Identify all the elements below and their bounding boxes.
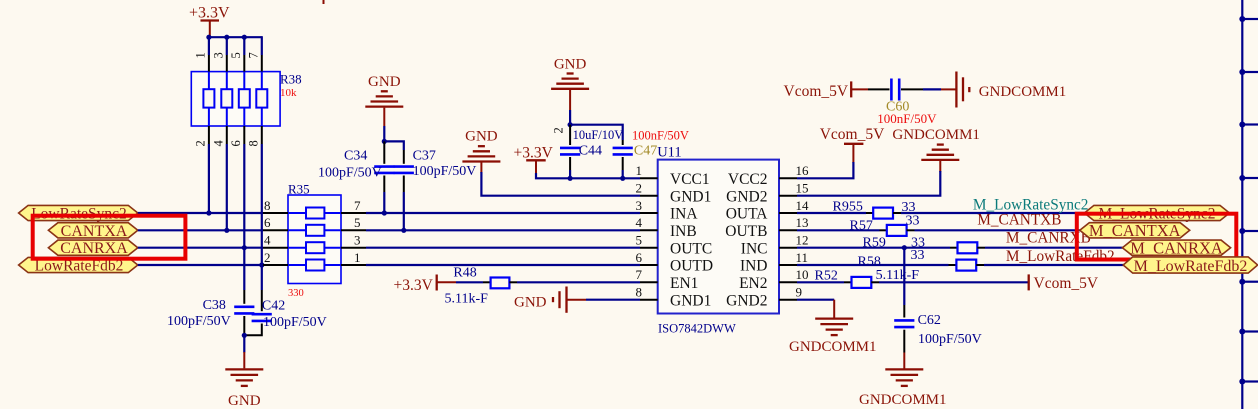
wire R59 to port M_CANRXA <box>985 247 1125 249</box>
R38 element 3 <box>239 89 250 107</box>
R35 element row 4 <box>288 264 306 266</box>
U11 pin 14 <box>779 212 797 214</box>
wire R57 to port M_CANTXA <box>915 229 1086 231</box>
svg-text:R48: R48 <box>453 266 476 281</box>
svg-text:15: 15 <box>796 181 809 196</box>
wire pin2 to LowRateSync2 net <box>208 144 210 213</box>
svg-text:100pF/50V: 100pF/50V <box>413 164 477 179</box>
U11 pin 1 <box>640 177 658 179</box>
svg-text:GNDCOMM1: GNDCOMM1 <box>979 84 1067 100</box>
svg-text:GND: GND <box>465 129 498 145</box>
capacitor C47 100nF/50V <box>613 129 689 179</box>
svg-text:C37: C37 <box>413 149 436 164</box>
node rail-pin3 <box>224 35 229 40</box>
svg-text:C34: C34 <box>344 149 367 164</box>
node rail-pin5 <box>242 35 247 40</box>
R35 element row 3 <box>288 247 306 249</box>
wire GND to pin8 <box>586 299 640 301</box>
svg-text:8: 8 <box>246 140 260 146</box>
svg-text:16: 16 <box>796 163 810 178</box>
power Vcom_5V (C60 left) <box>784 81 869 100</box>
svg-text:EN1: EN1 <box>670 275 698 292</box>
svg-text:10k: 10k <box>280 87 297 99</box>
resistor R48 5.11k-F <box>445 266 518 307</box>
ground GND (above C44) <box>551 56 589 110</box>
ground GNDCOMM1 (below C62) <box>859 353 947 409</box>
bus stub 4 <box>1242 177 1258 179</box>
resistor R59 33 <box>863 235 986 253</box>
wire R38 pin3 drop <box>226 37 228 55</box>
svg-text:14: 14 <box>796 198 810 213</box>
wire C62 branch <box>903 248 905 305</box>
svg-text:10uF/10V: 10uF/10V <box>573 128 624 142</box>
wire LowRateFdb2 to R35 pin2 <box>138 264 263 266</box>
wire junction to GND <box>243 335 245 352</box>
svg-text:GND1: GND1 <box>670 292 711 309</box>
svg-text:CANTXA: CANTXA <box>61 223 128 240</box>
svg-text:INC: INC <box>741 240 768 257</box>
capacitor C60 100nF/50V <box>868 79 937 127</box>
R38 element 1 <box>203 89 214 107</box>
svg-text:C38: C38 <box>203 298 226 313</box>
wire CANTXA to R35 pin6 <box>138 229 263 231</box>
wire LowRateSync2 to R35 pin8 <box>138 212 263 214</box>
red highlight rectangle right <box>1077 214 1237 260</box>
U11 pin 3 <box>640 212 658 214</box>
wire R35 pin3 to U11 OUTC <box>366 247 640 249</box>
svg-text:GND: GND <box>554 56 587 72</box>
power +3.3V (EN1) <box>394 275 457 295</box>
wire GND to C44/C47 tops <box>569 110 571 125</box>
port LowRateFdb2 <box>19 257 138 274</box>
U11 pin 7 <box>640 281 658 283</box>
svg-text:100nF/50V: 100nF/50V <box>632 129 689 143</box>
port M_LowRateSync2 <box>1084 205 1229 222</box>
svg-text:1: 1 <box>354 250 361 265</box>
svg-text:2: 2 <box>636 181 643 196</box>
U11 pin 15 <box>779 195 797 197</box>
ground GND (bar style, GND1 pin8) <box>514 287 586 313</box>
ground GNDCOMM1 (bar style, C60 right) <box>941 72 1066 108</box>
R35 pin 3 <box>341 247 366 249</box>
R35 element row 1 <box>288 212 306 214</box>
U11 pin 2 <box>640 195 658 197</box>
svg-text:6: 6 <box>636 250 643 265</box>
wire GNDCOMM1 to pin15 <box>797 171 940 196</box>
svg-text:OUTD: OUTD <box>670 258 713 275</box>
capacitor C37 100pF/50V <box>394 149 477 231</box>
svg-text:2: 2 <box>552 127 566 133</box>
U11 pin 11 <box>779 264 797 266</box>
wire pin10 to R52 <box>797 281 844 283</box>
svg-text:GND: GND <box>514 295 547 311</box>
capacitor C62 100pF/50V <box>894 305 982 353</box>
R35 pin 4 <box>263 247 288 249</box>
ground GND (to U11 GND1 pin2) <box>462 129 500 173</box>
wire R38 pin5 drop <box>243 37 245 55</box>
svg-text:M_CANTXB: M_CANTXB <box>977 212 1061 229</box>
svg-text:OUTA: OUTA <box>726 206 769 223</box>
capacitor C44 10uF/10V <box>560 125 623 179</box>
port CANTXA <box>48 223 137 240</box>
R35 pin 5 <box>341 229 366 231</box>
svg-text:1: 1 <box>636 163 643 178</box>
cut-off power stub top <box>323 0 325 4</box>
svg-text:100pF/50V: 100pF/50V <box>918 332 982 347</box>
wire right bus rail <box>1241 0 1243 409</box>
R38 pin 8 <box>261 108 263 126</box>
svg-text:U11: U11 <box>657 145 681 161</box>
bus stub 3 <box>1242 123 1258 125</box>
wire R52 to Vcom_5V <box>879 281 1029 283</box>
capacitor C34 100pF/50V <box>318 141 394 213</box>
svg-text:4: 4 <box>211 140 225 147</box>
U11 pin 10 <box>779 281 797 283</box>
R35 pin 2 <box>263 264 288 266</box>
svg-text:GNDCOMM1: GNDCOMM1 <box>859 392 947 408</box>
ground GNDCOMM1 (pin9) <box>789 300 877 356</box>
svg-text:100pF/50V: 100pF/50V <box>318 166 382 181</box>
port M_CANTXA <box>1080 221 1190 240</box>
svg-text:Vcom_5V: Vcom_5V <box>784 83 849 100</box>
svg-text:33: 33 <box>906 214 920 229</box>
svg-text:GNDCOMM1: GNDCOMM1 <box>789 339 877 355</box>
svg-text:6: 6 <box>264 215 271 230</box>
svg-text:VCC2: VCC2 <box>728 171 768 188</box>
wire pin11 to R58 <box>797 264 949 266</box>
wire pin12 to R59 <box>797 247 950 249</box>
wire pin6 to CANRXA net / C38 <box>243 144 245 290</box>
svg-text:M_CANTXA: M_CANTXA <box>1089 221 1181 240</box>
svg-text:GND2: GND2 <box>726 292 767 309</box>
svg-text:3: 3 <box>211 52 225 58</box>
R38 pin 1 <box>208 55 210 72</box>
U11 pin 5 <box>640 247 658 249</box>
svg-text:R955: R955 <box>833 200 863 215</box>
power +3.3V (R38 pull-up) <box>189 5 230 37</box>
power +3.3V (VCC1) <box>514 145 554 175</box>
svg-text:Vcom_5V: Vcom_5V <box>1034 275 1099 292</box>
svg-text:5: 5 <box>354 215 361 230</box>
svg-text:C47: C47 <box>634 144 657 159</box>
svg-text:+3.3V: +3.3V <box>514 145 554 162</box>
bus stub 5 <box>1242 230 1258 232</box>
svg-text:4: 4 <box>636 215 643 230</box>
svg-text:R59: R59 <box>863 235 886 250</box>
svg-text:13: 13 <box>796 215 809 230</box>
svg-text:INA: INA <box>670 206 698 223</box>
wire pin9 to GNDCOMM1 <box>797 299 834 301</box>
svg-text:3: 3 <box>354 233 361 248</box>
svg-text:+3.3V: +3.3V <box>189 5 230 22</box>
wire GND to C34/C37 tops <box>383 126 385 141</box>
svg-text:M_LowRateFdb2: M_LowRateFdb2 <box>1006 248 1115 265</box>
wire R35 pin1 to U11 OUTD <box>366 264 640 266</box>
node rail-pin1 <box>206 35 211 40</box>
svg-text:100nF/50V: 100nF/50V <box>877 111 937 126</box>
svg-text:GNDCOMM1: GNDCOMM1 <box>892 127 980 143</box>
wire R58 to port M_LowRateFdb2 <box>984 264 1127 266</box>
svg-text:R52: R52 <box>815 269 838 284</box>
wire pin14 to R955 <box>797 212 866 214</box>
bus stub 7 <box>1242 330 1258 332</box>
svg-text:CANRXA: CANRXA <box>60 240 128 257</box>
svg-text:C62: C62 <box>918 313 941 328</box>
R38 pin 5 <box>243 55 245 72</box>
port CANRXA <box>48 240 137 257</box>
svg-text:R35: R35 <box>288 182 310 197</box>
svg-text:7: 7 <box>246 52 260 58</box>
svg-text:1: 1 <box>193 52 207 58</box>
wire R35 pin5 to U11 INB <box>366 229 640 231</box>
wire R38 pin1 drop <box>208 37 210 55</box>
port LowRateSync2 <box>19 205 138 222</box>
U11 pin 16 <box>779 177 797 179</box>
R35 pin 8 <box>263 212 288 214</box>
U11 pin 6 <box>640 264 658 266</box>
R38 pin 2 <box>208 108 210 126</box>
svg-text:5.11k-F: 5.11k-F <box>445 292 489 307</box>
svg-text:7: 7 <box>354 198 361 213</box>
R35 pin 1 <box>341 264 366 266</box>
wire CANRXA to R35 pin4 <box>138 247 263 249</box>
ground GND (bottom left) <box>225 352 263 409</box>
svg-text:11: 11 <box>796 250 809 265</box>
svg-text:6: 6 <box>229 140 243 146</box>
svg-text:9: 9 <box>796 285 803 300</box>
R38 element 2 <box>221 89 232 107</box>
wire rail to R38 pins <box>209 36 262 38</box>
svg-text:R38: R38 <box>280 72 302 87</box>
svg-text:8: 8 <box>636 285 643 300</box>
svg-text:330: 330 <box>288 288 304 299</box>
svg-text:7: 7 <box>636 267 643 282</box>
resistor network R35 330 <box>288 182 341 300</box>
wire pin8 to LowRateFdb2 net / C42 <box>261 144 263 290</box>
U11 pin 12 <box>779 247 797 249</box>
bus stub 2 <box>1242 71 1258 73</box>
svg-text:2: 2 <box>264 250 271 265</box>
R35 pin 6 <box>263 229 288 231</box>
U11 pin 8 <box>640 299 658 301</box>
R38 pin 3 <box>226 55 228 72</box>
power Vcom_5V (pin10 net) <box>1029 274 1099 291</box>
R38 pin 7 <box>261 55 263 72</box>
wire +3.3V to R48 <box>456 281 483 283</box>
wire R955 to port M_LowRateSync2 <box>901 212 1090 214</box>
svg-text:Vcom_5V: Vcom_5V <box>820 126 885 143</box>
svg-text:33: 33 <box>911 248 925 263</box>
svg-text:VCC1: VCC1 <box>670 171 710 188</box>
bus stub 1 <box>1242 18 1258 20</box>
R38 pin 6 <box>243 108 245 126</box>
resistor network R38 10k <box>191 72 301 127</box>
R35 element row 2 <box>288 229 306 231</box>
ground GND (above C34/C37) <box>365 74 403 126</box>
svg-text:IND: IND <box>740 258 768 275</box>
svg-text:100pF/50V: 100pF/50V <box>167 314 231 329</box>
svg-text:8: 8 <box>264 198 271 213</box>
U11 pin 13 <box>779 229 797 231</box>
bus stub 6 <box>1242 281 1258 283</box>
capacitor C42 100pF/50V <box>244 290 326 335</box>
R38 element 4 <box>256 89 267 107</box>
U11 pin 4 <box>640 229 658 231</box>
wire Vcom_5V to pin16 <box>797 162 853 178</box>
capacitor C38 100pF/50V <box>167 290 254 335</box>
svg-text:2: 2 <box>193 140 207 146</box>
svg-text:4: 4 <box>264 233 271 248</box>
svg-text:OUTC: OUTC <box>670 240 712 257</box>
svg-text:12: 12 <box>796 233 809 248</box>
resistor R52 5.11k-F <box>815 268 920 288</box>
red highlight rectangle left <box>33 216 186 259</box>
wire GND to pin2 <box>481 172 640 196</box>
ground GNDCOMM1 (GND2 pin15) <box>892 127 980 172</box>
svg-text:EN2: EN2 <box>739 275 767 292</box>
svg-text:5: 5 <box>636 233 643 248</box>
svg-text:+3.3V: +3.3V <box>394 277 434 294</box>
R38 pin 4 <box>226 108 228 126</box>
svg-text:GND: GND <box>368 74 401 90</box>
svg-text:C42: C42 <box>262 299 285 314</box>
wire +3.3V to VCC1 pin1 <box>536 173 640 178</box>
svg-text:M_LowRateFdb2: M_LowRateFdb2 <box>1134 258 1248 275</box>
svg-text:3: 3 <box>636 198 643 213</box>
power Vcom_5V (VCC2 pin16) <box>820 126 885 163</box>
svg-text:5: 5 <box>229 52 243 58</box>
port M_CANRXA <box>1122 238 1230 257</box>
svg-text:ISO7842DWW: ISO7842DWW <box>658 322 736 336</box>
resistor R58 33 <box>858 248 985 271</box>
node C38/C42 junction <box>242 333 247 338</box>
svg-text:M_CANRXA: M_CANRXA <box>1130 238 1223 257</box>
wire R35 pin7 to U11 INA <box>366 212 640 214</box>
resistor R57 33 <box>850 214 920 236</box>
bus stub 8 <box>1242 380 1258 382</box>
svg-text:10: 10 <box>796 267 809 282</box>
resistor R955 33 <box>833 200 916 219</box>
wire R38 pin7 drop <box>261 36 263 55</box>
svg-text:GND2: GND2 <box>726 188 767 205</box>
svg-text:INB: INB <box>670 223 697 240</box>
svg-text:GND: GND <box>228 393 261 409</box>
op IC U11 ISO7842DWW <box>657 145 779 336</box>
svg-text:5.11k-F: 5.11k-F <box>876 268 920 283</box>
port M_LowRateFdb2 <box>1123 257 1258 275</box>
wire pin13 to R57 <box>797 229 880 231</box>
U11 pin 9 <box>779 299 797 301</box>
svg-text:OUTB: OUTB <box>725 223 767 240</box>
R35 pin 7 <box>341 212 366 214</box>
svg-text:R57: R57 <box>850 219 873 234</box>
svg-text:100pF/50V: 100pF/50V <box>263 315 327 330</box>
wire pin4 to CANTXA net <box>226 144 228 230</box>
wire R48 to EN1 pin7 <box>517 281 640 283</box>
wire C60 to GNDCOMM1 <box>923 88 941 90</box>
svg-text:C44: C44 <box>579 144 602 159</box>
svg-text:GND1: GND1 <box>670 188 711 205</box>
